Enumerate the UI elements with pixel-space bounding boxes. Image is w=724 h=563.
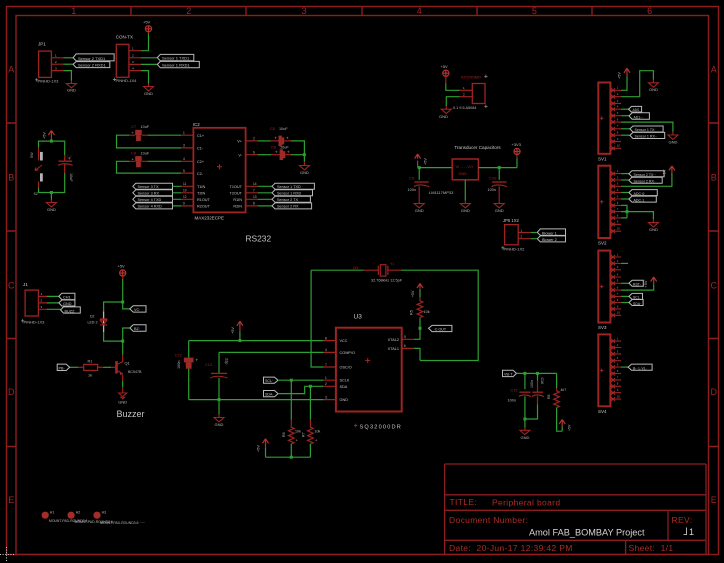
junction [523, 372, 526, 375]
svg-text:1: 1 [325, 376, 327, 380]
crystal Q2 [311, 269, 363, 271]
switch S2 lower contact [38, 182, 40, 188]
junction [309, 385, 312, 388]
svg-text:8: 8 [253, 202, 255, 206]
svg-text:VB·T: VB·T [504, 373, 513, 377]
supply +5V arrow S1 [48, 131, 54, 142]
svg-text:AD1···: AD1··· [634, 115, 644, 119]
ground GND14 [520, 430, 530, 434]
wire U3 pin VCC row [189, 340, 324, 342]
C8 leads [129, 160, 147, 162]
svg-text:C2+: C2+ [197, 160, 205, 164]
svg-text:H2: H2 [76, 511, 81, 515]
svg-text:5: 5 [532, 6, 537, 16]
svg-text:6: 6 [404, 344, 406, 348]
svg-text:PINHD-1X3: PINHD-1X3 [24, 320, 46, 325]
ground GND8 [460, 204, 470, 208]
svg-text:+5V: +5V [257, 445, 261, 452]
net flag arrow SDA [264, 391, 279, 397]
wire junction to ground [218, 400, 220, 414]
svg-text:GND: GND [144, 91, 153, 96]
svg-text:LM1117MP33: LM1117MP33 [429, 190, 454, 195]
svg-text:Transducer Capacitors: Transducer Capacitors [454, 145, 501, 150]
MAX232 pin names [197, 134, 211, 209]
wire SV3 pin8 to flag [621, 302, 629, 304]
svg-text:6: 6 [253, 151, 255, 155]
wire C6 to junction [291, 154, 304, 156]
wire XTAL1 to loop [414, 348, 420, 360]
junction bottom [523, 418, 526, 421]
ground GND2 [144, 87, 154, 91]
svg-text:IC2: IC2 [193, 122, 201, 127]
ground GND3 [46, 203, 56, 207]
U3 pin numbers [325, 335, 406, 399]
svg-text:COMP/O: COMP/O [340, 351, 355, 355]
svg-text:Sensor 2 RX·: Sensor 2 RX· [634, 180, 656, 184]
switch S2 upper contact [38, 148, 40, 161]
svg-text:10: 10 [183, 189, 187, 193]
net label box Sensor RXD [157, 61, 199, 67]
wire SV4 pin5 to flag [621, 366, 628, 368]
column numbers [71, 6, 652, 16]
frame row ticks right [709, 123, 719, 447]
wire SV2 pin5 to label [621, 198, 629, 200]
svg-text:C9: C9 [409, 176, 415, 181]
wire C7 right [148, 134, 182, 136]
wire regulator gnd [464, 180, 466, 201]
svg-text:D: D [710, 387, 717, 397]
svg-text:V+: V+ [237, 140, 243, 144]
net label box CH3 [61, 307, 81, 313]
svg-text:VI→→VO: VI→→VO [456, 164, 474, 169]
supply +5V arrow SV3 [651, 277, 657, 282]
svg-text:A: A [8, 65, 14, 75]
IC U3 [336, 328, 402, 412]
regulator IC1 [452, 159, 478, 180]
junction J1a [121, 301, 124, 304]
svg-text:Sensor 1 TXD: Sensor 1 TXD [277, 185, 301, 189]
svg-text:1: 1 [689, 527, 694, 537]
svg-text:TITLE:: TITLE: [450, 497, 478, 507]
frame column ticks top [131, 7, 592, 16]
svg-text:R2OUT: R2OUT [197, 205, 211, 209]
svg-text:A: A [711, 65, 717, 75]
capacitor C9 branch [418, 168, 420, 180]
svg-text:+5V: +5V [618, 72, 622, 79]
net flag arrow (on XTAL2 node) [429, 325, 452, 331]
wire JP1 pin3 to ground [64, 71, 72, 81]
svg-text:R6: R6 [282, 432, 286, 437]
svg-text:7: 7 [253, 189, 255, 193]
wire flag SDA to U3 (jog) [278, 386, 323, 393]
svg-text:GND: GND [439, 114, 448, 119]
wire loop bottom [39, 173, 65, 193]
svg-text:JP1: JP1 [38, 42, 46, 47]
wire SV1 pin4 to label [621, 108, 628, 110]
svg-text:1: 1 [71, 6, 76, 16]
svg-text:+5V: +5V [411, 290, 415, 297]
junction [419, 327, 422, 330]
svg-text:CH1: CH1 [63, 296, 71, 300]
capacitor C10 branch [498, 168, 500, 180]
net flag box b [130, 325, 146, 331]
svg-text:R2IN: R2IN [233, 205, 242, 209]
wire bottom row joining pullups [266, 456, 311, 458]
svg-text:Sensor 3 TX: Sensor 3 TX [138, 185, 160, 189]
svg-text:R1IN: R1IN [233, 198, 242, 202]
junction [498, 166, 501, 169]
title block [445, 464, 706, 555]
svg-text:PINHD-1X3: PINHD-1X3 [38, 79, 60, 84]
svg-text:+: + [287, 149, 290, 154]
svg-text:6: 6 [647, 6, 652, 16]
svg-text:10k: 10k [295, 430, 301, 434]
svg-text:BUZZ: BUZZ [65, 309, 76, 313]
wire JP2 pin4 to ground [141, 71, 149, 84]
svg-text:7: 7 [325, 363, 327, 367]
JP1 pin stubs [51, 58, 63, 71]
svg-text:SCL·: SCL· [265, 379, 273, 383]
svg-text:+: + [286, 136, 289, 141]
wire SV3 pin2 stub [621, 262, 628, 264]
svg-text:Sensor 2 TX··: Sensor 2 TX·· [634, 173, 656, 177]
JP2 pin stubs [129, 51, 141, 71]
origin crosshair bottom-left [0, 547, 14, 562]
svg-text:11: 11 [183, 182, 187, 186]
svg-text:+3V3: +3V3 [512, 142, 522, 147]
svg-text:+5V: +5V [43, 132, 47, 139]
svg-text:+5V: +5V [663, 169, 667, 176]
junction [238, 339, 241, 342]
supply VCC P3 (buzzer) [120, 270, 126, 276]
ground GND12 [668, 135, 678, 139]
emitter wire to ground [122, 375, 124, 381]
wire JP2 pin3 [141, 63, 157, 65]
svg-text:0.1 9.5 A5084: 0.1 9.5 A5084 [453, 106, 476, 110]
wire flag to U3 SCLK [278, 379, 323, 381]
svg-text:Sensor 1 TX·: Sensor 1 TX· [635, 128, 656, 132]
svg-text:BC547B: BC547B [128, 370, 142, 374]
wire SV2 pins 6-8 tied [621, 205, 627, 218]
svg-text:GND: GND [459, 172, 468, 176]
junction [418, 166, 421, 169]
resistor R7 (pullup SDA) [309, 386, 311, 419]
svg-text:GND: GND [495, 208, 504, 213]
ground GND1 [66, 84, 76, 88]
svg-text:MOUNT-PAD-ROUND3.6······: MOUNT-PAD-ROUND3.6······ [100, 521, 145, 525]
junction [290, 456, 293, 459]
svg-text:Sensor 2 RX: Sensor 2 RX [277, 205, 299, 209]
wire to +3V3 circle [516, 158, 518, 167]
wire V+ to C5 [258, 140, 271, 142]
junction [50, 140, 53, 143]
MAX232 pin numbers [183, 131, 257, 206]
svg-text:B: B [8, 173, 14, 183]
svg-text:Blower 1: Blower 1 [542, 232, 557, 236]
wire SV1 pin2 to ground [621, 71, 653, 97]
svg-text:AD0: AD0 [633, 108, 640, 112]
svg-text:OSC/O: OSC/O [340, 366, 352, 370]
svg-text:+: + [68, 156, 71, 161]
ground GND7 [498, 201, 500, 204]
U3 left pin stubs [323, 341, 336, 400]
svg-text:C8: C8 [131, 150, 137, 155]
wire SV1 pin6 to ground [621, 122, 673, 131]
svg-text:GND: GND [520, 435, 529, 440]
capacitor C8 (polarized) [135, 156, 142, 167]
capacitor C15 branch [524, 373, 526, 389]
wire C7 left loop [117, 135, 182, 148]
svg-text:+5V: +5V [424, 158, 428, 165]
device X1 [472, 84, 485, 104]
supply +5V arrow above R5 [419, 290, 421, 298]
mounting hole H1 [42, 512, 49, 519]
supply +5V arrow above junction [239, 332, 241, 341]
svg-text:X2020SMD: X2020SMD [461, 75, 482, 80]
svg-text:SDA·: SDA· [265, 393, 274, 397]
svg-text:R1OUT: R1OUT [197, 198, 211, 202]
svg-text:H1: H1 [50, 511, 55, 515]
wire crystal left vertical to OSC pin [311, 270, 323, 367]
transistor Q1 [115, 361, 118, 373]
wires label boxes to MAX232 left [173, 186, 182, 206]
wire U3 GND row [189, 399, 324, 401]
ground GND11 [648, 83, 658, 87]
svg-text:Document Number:: Document Number: [449, 515, 528, 525]
svg-text:3: 3 [183, 144, 185, 148]
svg-text:+5V: +5V [231, 327, 235, 334]
svg-text:Sensor 1 TXD1: Sensor 1 TXD1 [162, 56, 190, 61]
svg-text:Q2: Q2 [353, 265, 359, 270]
junction [290, 379, 293, 382]
svg-text:B: B [711, 173, 717, 183]
svg-text:10: 10 [617, 311, 621, 315]
svg-text:10: 10 [617, 144, 621, 148]
svg-text:22p: 22p [225, 358, 229, 364]
svg-text:4k7: 4k7 [561, 388, 567, 392]
svg-text:32.768kHz 12.5pF: 32.768kHz 12.5pF [371, 279, 403, 283]
net flag arrow SCLK [264, 377, 279, 383]
wire XTAL2 to resistor [414, 319, 420, 340]
svg-text:C12: C12 [175, 354, 182, 358]
svg-text:Sensor 1 RXD1: Sensor 1 RXD1 [162, 63, 191, 68]
supply +3V3 circle [514, 148, 520, 154]
wire C8 right [148, 160, 182, 162]
JP5 pin stubs [518, 233, 531, 239]
svg-text:H3: H3 [102, 511, 107, 515]
svg-text:10: 10 [617, 395, 621, 399]
svg-text:2: 2 [325, 382, 327, 386]
svg-text:C10: C10 [489, 176, 497, 181]
svg-text:+5V: +5V [644, 280, 648, 287]
wire diode branch bottom [104, 332, 123, 341]
svg-text:D: D [8, 387, 15, 397]
pin header SV1 [598, 83, 621, 162]
wire C8 left loop [117, 161, 182, 173]
svg-text:GND: GND [461, 208, 470, 213]
svg-text:GND: GND [415, 208, 424, 213]
net label box CH1 [59, 293, 75, 299]
svg-text:+: + [275, 136, 278, 141]
svg-text:D2: D2 [90, 315, 95, 319]
svg-text:Peripheral board: Peripheral board [492, 498, 560, 508]
svg-text:10uF: 10uF [69, 173, 73, 182]
wire junction b up to flag b [123, 328, 130, 341]
svg-text:1k: 1k [88, 374, 92, 378]
supply +5V arrow (divider) [561, 427, 563, 432]
svg-text:RST·: RST· [633, 283, 641, 287]
svg-text:GND: GND [668, 139, 677, 144]
svg-text:+5V: +5V [568, 424, 572, 431]
svg-text:+: + [275, 149, 278, 154]
svg-text:Q1: Q1 [125, 361, 131, 366]
net label box Sensor 2 RXD1 [73, 62, 110, 68]
svg-text:10k: 10k [424, 310, 430, 314]
svg-text:LED·3: LED·3 [88, 321, 98, 325]
svg-text:REV:: REV: [672, 515, 693, 525]
svg-text:C15: C15 [511, 389, 518, 393]
wire diode branch top [104, 302, 123, 311]
svg-text:PB·: PB· [59, 366, 65, 370]
capacitor C16 branch [537, 373, 539, 380]
svg-text:C7: C7 [131, 124, 137, 129]
svg-text:Buzzer: Buzzer [117, 409, 145, 419]
svg-text:GND: GND [63, 302, 72, 306]
svg-text:+5V: +5V [441, 64, 449, 69]
svg-text:10uF: 10uF [141, 151, 150, 155]
wire loop top (switch/cap circuit) [39, 141, 65, 155]
svg-text:Sensor 4 TXD: Sensor 4 TXD [138, 198, 162, 202]
switch actuator arrow [35, 165, 42, 171]
wire to ground [50, 193, 52, 200]
svg-text:5: 5 [404, 335, 406, 339]
svg-text:ADC·0·: ADC·0· [634, 192, 646, 196]
svg-text:14: 14 [253, 182, 257, 186]
wire SV1 pin8 to label [621, 134, 630, 136]
capacitor C5 [271, 140, 279, 142]
net flag RST [629, 280, 643, 286]
svg-text:SDA·: SDA· [633, 302, 641, 306]
svg-text:Sensor 2 TXD1: Sensor 2 TXD1 [78, 56, 106, 61]
net label boxes left of MAX232 [133, 183, 173, 209]
svg-text:SV2: SV2 [598, 241, 607, 246]
svg-text:C: C [710, 280, 717, 290]
svg-text:100n: 100n [530, 380, 534, 388]
wire U3 pin2 row [219, 351, 323, 353]
MAX232 left pin stubs [181, 135, 193, 206]
svg-text:B·· L·VL·: B·· L·VL· [633, 367, 647, 371]
wire VCC down to junction [122, 276, 124, 279]
wire to regulator input [419, 167, 452, 169]
svg-text:4: 4 [325, 348, 327, 352]
wire SV3 pin7 to flag [621, 295, 629, 297]
svg-text:PINHD-1X4: PINHD-1X4 [116, 78, 138, 83]
row letters left [8, 65, 15, 506]
base resistor R1 [98, 366, 104, 368]
svg-text:4: 4 [183, 157, 185, 161]
wire C5 to junction [291, 141, 304, 155]
net label box pin2 [537, 236, 565, 242]
ground GND5 [441, 109, 451, 113]
wire SV2 pin3 to +5V [621, 174, 672, 187]
svg-text:GND: GND [118, 400, 127, 405]
wire junction to ground [627, 212, 653, 220]
svg-text:Amol FAB_BOMBAY Project: Amol FAB_BOMBAY Project [529, 527, 645, 537]
svg-text:T1IN: T1IN [197, 185, 205, 189]
junction J1b [121, 340, 124, 343]
svg-text:3: 3 [325, 395, 327, 399]
svg-text:C2-: C2- [197, 172, 204, 176]
svg-text:T2IN: T2IN [197, 192, 205, 196]
wire SV2 pin4 to label [621, 192, 629, 194]
svg-text:XTAL1: XTAL1 [388, 347, 399, 351]
svg-text:SW: SW [30, 152, 34, 158]
wires JP5 to labels [531, 233, 537, 239]
svg-text:GND: GND [300, 170, 309, 175]
svg-text:12: 12 [183, 195, 187, 199]
svg-text:S2: S2 [34, 192, 38, 196]
op-amp U2 MAX232 [193, 128, 245, 213]
svg-text:+: + [196, 358, 199, 363]
net flag VBAT (divider circuit) [502, 370, 516, 376]
svg-text:T2OUT: T2OUT [230, 192, 243, 196]
svg-text:E: E [711, 495, 717, 505]
wire JP2 pin1 to VCC [141, 34, 149, 51]
ground GND13 [648, 223, 658, 227]
svg-text:GND: GND [649, 87, 658, 92]
svg-text:SV4: SV4 [598, 409, 607, 414]
net flag PB [70, 366, 78, 368]
wire collector [122, 341, 124, 354]
connector JP2 [113, 35, 137, 83]
svg-text:R5: R5 [410, 310, 414, 315]
supply VCC P2 (top middle) [443, 70, 449, 76]
MAX232 right pin stubs [246, 141, 258, 206]
wire crystal right loop [401, 270, 478, 360]
resistor R5 (vertical) [417, 298, 423, 319]
svg-text:R8: R8 [547, 394, 551, 399]
wire SV3 pin6 to +5V [621, 285, 654, 291]
capacitor C2 (polarized) [58, 155, 73, 173]
svg-text:2: 2 [253, 137, 255, 141]
svg-text:10k: 10k [315, 430, 321, 434]
junction [303, 153, 306, 156]
svg-text:C16: C16 [540, 378, 544, 384]
connector JP1 [35, 42, 59, 84]
ground GND6 [418, 201, 420, 204]
net flag BATT LVL [628, 364, 652, 370]
supply +5V arrow SV1 [624, 68, 630, 73]
svg-text:9: 9 [183, 202, 185, 206]
net flag box a [130, 306, 146, 312]
svg-text:GND: GND [340, 398, 349, 402]
svg-text:CON-TX: CON-TX [116, 35, 133, 40]
svg-text:E: E [8, 495, 14, 505]
junction on GND row [218, 398, 221, 401]
supply +5V arrow (regulator input) [415, 154, 421, 168]
svg-text:1: 1 [183, 131, 185, 135]
frame row ticks left [7, 123, 17, 447]
svg-text:C5: C5 [270, 126, 276, 131]
svg-text:PINHD-1X2: PINHD-1X2 [504, 247, 526, 252]
svg-text:4: 4 [417, 6, 422, 16]
pin header SV2 [598, 166, 621, 246]
svg-text:100n: 100n [508, 399, 516, 403]
svg-text:Y1: Y1 [390, 262, 394, 266]
junction [626, 210, 629, 213]
svg-text:C: C [8, 280, 15, 290]
mounting hole H2 [68, 512, 75, 519]
